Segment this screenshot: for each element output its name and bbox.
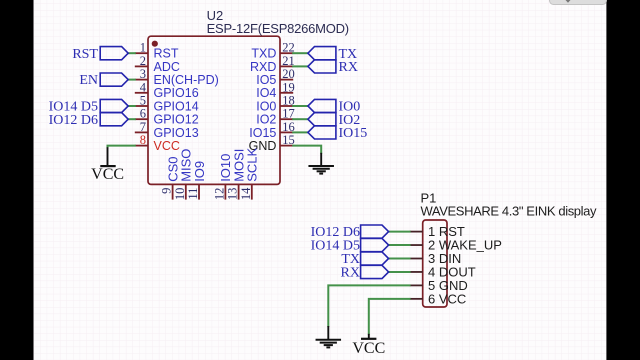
P1 pin 3 stub <box>410 258 423 260</box>
svg-text:EN(CH-PD): EN(CH-PD) <box>154 73 219 87</box>
U2 pin 12 stub <box>224 184 226 199</box>
net flag TX (P1 side) <box>361 252 389 265</box>
wire net IO14 D5 to P1 <box>389 244 411 246</box>
svg-text:2: 2 <box>140 54 146 68</box>
svg-text:3: 3 <box>140 67 146 81</box>
U2 pin 11 stub <box>198 184 200 199</box>
svg-text:GPIO13: GPIO13 <box>154 126 199 140</box>
wire net TX to U2 <box>292 52 308 54</box>
net flag IO0 <box>308 99 336 112</box>
U2 pin 22 stub <box>280 52 293 54</box>
wire net RX to P1 <box>389 271 411 273</box>
U2 pin 13 stub <box>238 184 240 199</box>
net flag IO14 D5 <box>100 99 128 112</box>
U2 pin 15 stub <box>280 145 293 147</box>
ground symbol (P1) <box>316 339 342 341</box>
svg-text:11: 11 <box>186 188 200 200</box>
svg-text:WAVESHARE 4.3" EINK display: WAVESHARE 4.3" EINK display <box>421 203 598 218</box>
U2 pin 5 stub <box>135 105 148 107</box>
wire GND from P1 pin 5 <box>328 285 410 327</box>
svg-text:5: 5 <box>140 94 146 108</box>
VCC supply symbol lead (bottom) <box>368 334 370 338</box>
svg-text:14: 14 <box>239 187 253 200</box>
svg-text:IO15: IO15 <box>249 126 276 140</box>
svg-text:RST: RST <box>72 47 98 62</box>
U2 pin 10 stub <box>185 184 187 199</box>
wire net RX to U2 <box>292 65 308 67</box>
svg-text:IO0: IO0 <box>256 99 276 113</box>
P1 pin 1 stub <box>410 231 423 233</box>
wire net TX to P1 <box>389 258 411 260</box>
svg-text:GPIO12: GPIO12 <box>154 113 199 127</box>
connector P1 body <box>423 220 447 307</box>
ground symbol lead (P1) <box>327 326 329 340</box>
U2 pin 21 stub <box>280 65 293 67</box>
op-amp U2 body (IC rectangle) <box>148 36 280 184</box>
svg-text:20: 20 <box>282 67 295 81</box>
U2 pin 19 stub <box>280 92 293 94</box>
VCC supply symbol bar (bottom) <box>361 338 376 340</box>
svg-text:IO15: IO15 <box>339 126 368 141</box>
P1 pin 5 stub <box>410 284 423 286</box>
U2 pin 6 stub <box>135 118 148 120</box>
U2 pin 18 stub <box>280 105 293 107</box>
U2 pin 4 stub <box>135 92 148 94</box>
right letterbox bar <box>606 0 640 360</box>
net flag RX (P1 side) <box>361 265 389 278</box>
wire net RST to U2 <box>128 52 136 54</box>
svg-text:1: 1 <box>140 41 146 55</box>
svg-text:RST: RST <box>154 47 179 61</box>
wire VCC from U2 pin 8 <box>108 146 136 149</box>
wire net IO0 to U2 <box>292 105 308 107</box>
svg-text:4: 4 <box>140 80 147 94</box>
ground symbol (U2) <box>308 165 334 167</box>
U2 pin 2 stub <box>135 65 148 67</box>
svg-text:IO12 D6: IO12 D6 <box>49 113 98 128</box>
ground symbol lead (U2) <box>320 153 322 166</box>
wire GND from U2 pin 15 <box>292 146 321 154</box>
svg-text:IO4: IO4 <box>256 86 276 100</box>
P1 pin 6 stub <box>410 298 423 300</box>
net flag IO12 D6 <box>100 113 128 126</box>
wire net IO14 D5 to U2 <box>128 105 136 107</box>
wire net EN to U2 <box>128 79 136 81</box>
svg-text:IO9: IO9 <box>192 161 207 182</box>
svg-text:8: 8 <box>140 133 146 147</box>
wire net IO15 to U2 <box>292 131 308 133</box>
U2 pin 9 stub <box>172 184 174 199</box>
svg-text:TXD: TXD <box>251 47 276 61</box>
net flag IO2 <box>308 113 336 126</box>
svg-text:IO5: IO5 <box>256 73 276 87</box>
U2 pin 14 stub <box>251 184 253 199</box>
net flag IO15 <box>308 126 336 139</box>
svg-text:VCC: VCC <box>91 166 124 183</box>
net flag IO14 D5 (P1 side) <box>361 238 389 251</box>
P1 pin 4 stub <box>410 271 423 273</box>
svg-text:13: 13 <box>226 188 240 201</box>
svg-text:ESP-12F(ESP8266MOD): ESP-12F(ESP8266MOD) <box>207 21 350 36</box>
wire net IO12 D6 to P1 <box>389 231 411 233</box>
svg-text:VCC: VCC <box>154 139 180 153</box>
VCC supply symbol bar (left) <box>100 165 115 167</box>
svg-text:EN: EN <box>79 73 98 88</box>
svg-text:RXD: RXD <box>250 60 276 74</box>
U2 pin 7 stub <box>135 131 148 133</box>
svg-text:9: 9 <box>160 188 174 194</box>
left letterbox bar <box>0 0 34 360</box>
U2 pin-1 orientation dot <box>152 41 158 47</box>
svg-text:19: 19 <box>282 80 295 94</box>
svg-text:12: 12 <box>212 188 226 201</box>
net flag RX <box>308 60 336 73</box>
net flag RST <box>100 47 128 60</box>
net flag IO12 D6 (P1 side) <box>361 225 389 238</box>
svg-text:SCLK: SCLK <box>245 148 260 182</box>
svg-text:7: 7 <box>140 120 146 134</box>
wire net IO2 to U2 <box>292 118 308 120</box>
P1 pin 2 stub <box>410 244 423 246</box>
browser tab UI remnant (top right) <box>550 0 607 5</box>
svg-text:6: 6 <box>140 107 146 121</box>
U2 pin 17 stub <box>280 118 293 120</box>
wire net IO12 D6 to U2 <box>128 118 136 120</box>
svg-text:IO2: IO2 <box>256 113 276 127</box>
U2 pin 1 stub <box>135 52 148 54</box>
svg-text:ADC: ADC <box>154 60 180 74</box>
wire VCC from P1 pin 6 <box>369 299 411 335</box>
svg-text:VCC: VCC <box>352 340 385 357</box>
net flag EN <box>100 73 128 86</box>
svg-text:RX: RX <box>341 266 360 281</box>
svg-text:GPIO14: GPIO14 <box>154 99 199 113</box>
U2 pin 3 stub <box>135 79 148 81</box>
net flag TX <box>308 47 336 60</box>
svg-text:RX: RX <box>339 60 358 75</box>
U2 pin 8 stub <box>135 145 148 147</box>
svg-text:10: 10 <box>173 188 187 201</box>
U2 pin 16 stub <box>280 131 293 133</box>
svg-text:6 VCC: 6 VCC <box>428 291 466 306</box>
VCC supply symbol lead (left) <box>107 147 109 165</box>
U2 pin 20 stub <box>280 79 293 81</box>
svg-text:GPIO16: GPIO16 <box>154 86 199 100</box>
